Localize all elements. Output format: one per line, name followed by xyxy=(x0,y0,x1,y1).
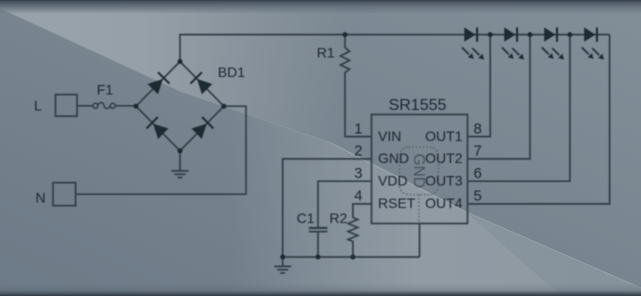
svg-text:R2: R2 xyxy=(329,210,347,226)
LED D4 xyxy=(582,27,604,59)
svg-text:C1: C1 xyxy=(297,210,315,226)
svg-text:BD1: BD1 xyxy=(218,64,245,80)
fuse F1 xyxy=(93,103,115,109)
background light wedge lower-right (below diagonal) xyxy=(230,108,641,296)
node C1 bottom xyxy=(316,255,321,260)
svg-text:2: 2 xyxy=(354,143,362,160)
svg-text:6: 6 xyxy=(474,165,482,182)
IC SR1555 body xyxy=(372,115,468,224)
terminal N box xyxy=(53,183,76,206)
bridge BD1 diamond wires xyxy=(136,62,224,151)
wire L to fuse xyxy=(77,105,93,107)
IC bottom pad wire xyxy=(419,224,421,258)
resistor R2 xyxy=(348,218,358,258)
LED D3 xyxy=(542,27,564,59)
bridge diode top-right xyxy=(190,72,213,95)
pin 7 wire OUT2 xyxy=(468,35,531,159)
background light wedge upper-left (above diagonal) xyxy=(0,0,340,147)
svg-text:VDD: VDD xyxy=(378,173,408,189)
bottom ground rail xyxy=(283,256,420,258)
ground under bridge xyxy=(172,171,189,178)
wire bridge top to rail xyxy=(180,35,610,62)
node bridge bottom xyxy=(178,148,183,153)
pin 2 GND wire xyxy=(283,159,372,257)
svg-text:OUT1: OUT1 xyxy=(425,128,463,144)
diagonal edge highlight xyxy=(0,9,330,143)
node fuse-bridge xyxy=(134,104,139,109)
ground at bottom rail xyxy=(274,257,291,273)
wire bridge bottom to ground xyxy=(179,151,181,171)
svg-text:L: L xyxy=(34,98,42,114)
bottom-right subtle wedge xyxy=(464,210,641,296)
node LED2-3 xyxy=(528,32,533,37)
IC thermal pad dashed xyxy=(400,147,439,195)
bridge diode top-left xyxy=(146,72,214,140)
svg-text:GND: GND xyxy=(378,150,409,166)
node R1 top xyxy=(343,32,348,37)
svg-text:OUT2: OUT2 xyxy=(425,150,463,166)
node LED3-4 xyxy=(567,32,572,37)
svg-text:5: 5 xyxy=(474,188,482,205)
node gnd corner xyxy=(280,255,285,260)
pin 4 RSET wire xyxy=(353,204,372,218)
pad dashed stub xyxy=(418,195,420,224)
capacitor C1 plates xyxy=(309,228,328,232)
pin 8 wire OUT1 xyxy=(468,35,491,137)
bridge diode bottom-left xyxy=(146,116,169,139)
svg-text:OUT3: OUT3 xyxy=(425,173,463,189)
svg-text:N: N xyxy=(36,190,46,206)
bottom dark strip xyxy=(0,283,641,296)
svg-text:RSET: RSET xyxy=(378,195,416,211)
svg-text:R1: R1 xyxy=(317,45,335,61)
svg-text:F1: F1 xyxy=(97,82,114,98)
LED D1 xyxy=(462,27,604,59)
pin 6 wire OUT3 xyxy=(468,35,570,182)
svg-text:1: 1 xyxy=(354,120,362,137)
svg-text:SR1555: SR1555 xyxy=(389,97,447,114)
node R2 bottom xyxy=(350,255,355,260)
node bridge right xyxy=(221,104,226,109)
capacitor C1 lower wire xyxy=(317,232,319,257)
svg-text:VIN: VIN xyxy=(378,128,401,144)
pin 5 wire OUT4 xyxy=(468,35,610,204)
svg-text:4: 4 xyxy=(354,188,362,205)
wire bridge right to N net xyxy=(76,106,246,194)
wire fuse to bridge xyxy=(115,105,136,107)
terminal L box xyxy=(56,95,78,117)
bridge diode bottom-right xyxy=(191,116,214,139)
resistor R1 xyxy=(341,35,372,137)
svg-text:8: 8 xyxy=(474,120,482,137)
pin 3 VDD wire to C1 xyxy=(318,181,372,227)
top dark strip xyxy=(0,0,641,14)
svg-text:OUT4: OUT4 xyxy=(425,195,463,211)
LED D2 xyxy=(502,27,524,59)
svg-text:3: 3 xyxy=(354,165,362,182)
svg-text:7: 7 xyxy=(474,143,482,160)
node LED1-2 xyxy=(488,32,493,37)
node bridge top xyxy=(178,59,183,64)
